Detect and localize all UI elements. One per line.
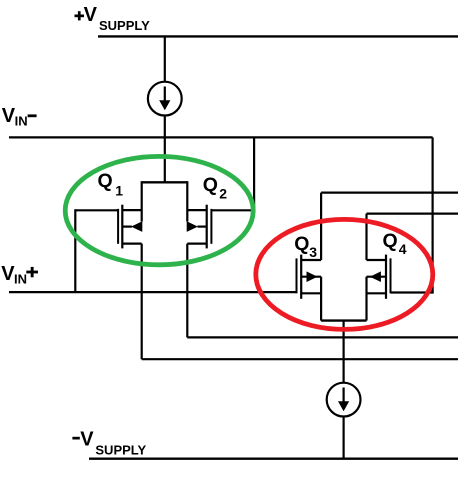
svg-text:SUPPLY: SUPPLY xyxy=(99,18,150,33)
-V supply rail wire xyxy=(89,458,458,460)
node -VSUPPLY label xyxy=(72,428,146,457)
wire from current source I2 to -V rail xyxy=(343,417,345,459)
wire Q2 drain down xyxy=(186,244,188,338)
wire Q4 gate lead xyxy=(391,291,434,293)
NMOS common source rail xyxy=(321,319,366,321)
transistor Q3 xyxy=(296,255,322,299)
svg-text:Q: Q xyxy=(98,170,113,192)
svg-text:3: 3 xyxy=(309,244,317,260)
Q1 label xyxy=(98,170,124,198)
transistor Q1 xyxy=(75,205,142,249)
transistor Q4 xyxy=(367,255,392,299)
svg-text:2: 2 xyxy=(219,185,227,201)
wire Q2 gate up to VIN- xyxy=(253,137,255,210)
svg-text:V: V xyxy=(84,4,98,26)
wire Q4 drain up xyxy=(365,214,367,260)
Q2 label xyxy=(203,174,228,201)
Q3 label xyxy=(294,233,317,260)
wire NMOS tail down to current source I2 xyxy=(343,321,345,383)
wire Q3 drain up xyxy=(320,193,322,260)
svg-text:4: 4 xyxy=(399,241,407,257)
wire Q2 drain route right xyxy=(187,336,458,338)
+V supply rail wire xyxy=(98,35,458,37)
transistor Q2 xyxy=(187,205,254,249)
svg-text:V: V xyxy=(80,428,94,450)
green ellipse around PMOS pair xyxy=(65,156,253,264)
svg-text:Q: Q xyxy=(294,233,309,255)
svg-text:IN: IN xyxy=(15,113,28,128)
wire Q1 source leg xyxy=(141,181,143,221)
wire Q1 drain route right xyxy=(142,358,458,360)
VIN- input wire xyxy=(9,136,433,138)
svg-text:1: 1 xyxy=(115,183,123,199)
node +VSUPPLY label xyxy=(75,4,151,33)
Q4 label xyxy=(383,230,407,257)
node VIN- label xyxy=(2,105,37,128)
PMOS common source rail xyxy=(142,181,188,183)
wire Q4 source leg xyxy=(365,277,367,321)
VIN+ input wire (also Q3 gate lead) xyxy=(9,291,297,293)
wire Q3 drain route right xyxy=(321,192,458,194)
svg-text:IN: IN xyxy=(14,272,27,287)
wire Q4 drain route right xyxy=(367,213,458,215)
wire Q1 gate down to VIN+ xyxy=(74,209,76,292)
node VIN+ label xyxy=(1,263,38,287)
red ellipse around NMOS pair xyxy=(256,219,433,329)
current source I1 xyxy=(148,82,182,116)
svg-text:SUPPLY: SUPPLY xyxy=(95,442,146,457)
svg-text:Q: Q xyxy=(383,230,398,252)
wire from current source I1 to PMOS source rail xyxy=(164,116,166,183)
wire Q1 drain down xyxy=(141,244,143,360)
current source I2 xyxy=(327,383,361,417)
svg-text:Q: Q xyxy=(203,174,218,196)
wire VIN- down right side xyxy=(432,137,434,292)
wire from +V rail to current source I1 xyxy=(164,36,166,82)
wire Q2 source leg xyxy=(186,181,188,221)
wire Q3 source leg xyxy=(320,277,322,321)
